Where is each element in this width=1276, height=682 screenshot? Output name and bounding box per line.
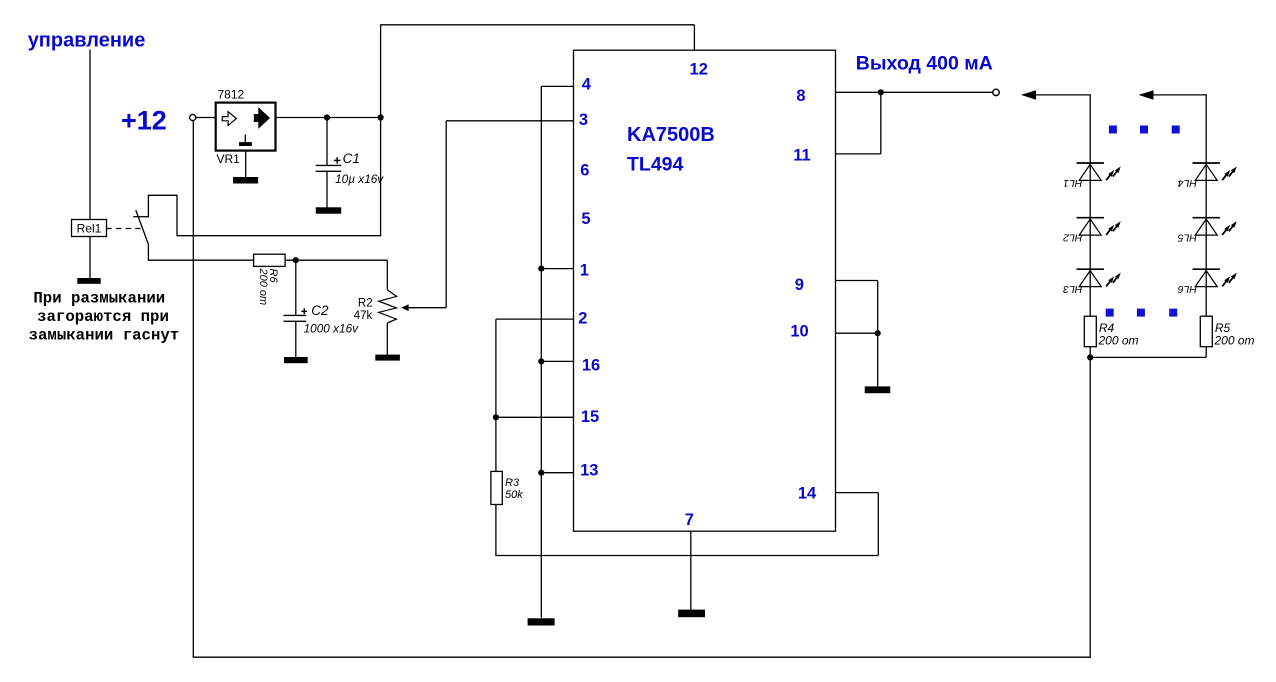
svg-text:+12: +12 xyxy=(121,105,167,135)
svg-text:1: 1 xyxy=(580,262,589,280)
svg-text:HL6: HL6 xyxy=(1178,283,1197,295)
svg-text:TL494: TL494 xyxy=(627,154,684,176)
svg-text:5: 5 xyxy=(581,210,590,228)
svg-text:R2: R2 xyxy=(358,298,373,310)
svg-text:50k: 50k xyxy=(505,489,523,501)
svg-text:7812: 7812 xyxy=(218,88,245,102)
svg-text:4: 4 xyxy=(582,75,592,93)
svg-text:HL5: HL5 xyxy=(1178,232,1197,244)
svg-text:HL1: HL1 xyxy=(1063,177,1082,189)
svg-text:7: 7 xyxy=(685,511,694,529)
svg-text:10: 10 xyxy=(790,323,808,341)
svg-text:16: 16 xyxy=(582,357,600,375)
svg-text:C2: C2 xyxy=(311,303,329,318)
svg-text:При размыкании: При размыкании xyxy=(33,289,165,307)
svg-text:8: 8 xyxy=(796,87,805,105)
svg-text:замыкании гаснут: замыкании гаснут xyxy=(29,327,180,345)
svg-text:управление: управление xyxy=(28,29,146,51)
svg-text:14: 14 xyxy=(798,485,817,503)
svg-text:10µ x16v: 10µ x16v xyxy=(335,172,384,186)
svg-text:13: 13 xyxy=(580,461,598,479)
svg-text:2: 2 xyxy=(578,310,587,328)
svg-text:15: 15 xyxy=(581,408,599,426)
svg-text:11: 11 xyxy=(793,147,810,165)
svg-text:200 om: 200 om xyxy=(1214,333,1255,347)
svg-text:VR1: VR1 xyxy=(217,152,241,166)
svg-text:HL2: HL2 xyxy=(1063,232,1082,244)
svg-text:KA7500B: KA7500B xyxy=(627,124,715,146)
svg-text:Rel1: Rel1 xyxy=(77,222,102,236)
svg-text:200 om: 200 om xyxy=(257,268,269,306)
svg-text:9: 9 xyxy=(795,276,804,294)
svg-text:47k: 47k xyxy=(354,310,373,322)
svg-text:R3: R3 xyxy=(505,477,520,489)
svg-text:200 om: 200 om xyxy=(1098,333,1139,347)
svg-text:HL4: HL4 xyxy=(1178,177,1197,189)
svg-text:загораются при: загораются при xyxy=(37,308,169,326)
svg-text:C1: C1 xyxy=(343,151,360,166)
svg-text:12: 12 xyxy=(690,60,708,78)
svg-text:Выход 400 мА: Выход 400 мА xyxy=(856,53,993,75)
svg-text:6: 6 xyxy=(580,161,589,179)
svg-text:3: 3 xyxy=(579,111,588,129)
svg-text:HL3: HL3 xyxy=(1063,283,1082,295)
svg-text:1000 x16v: 1000 x16v xyxy=(304,321,360,335)
